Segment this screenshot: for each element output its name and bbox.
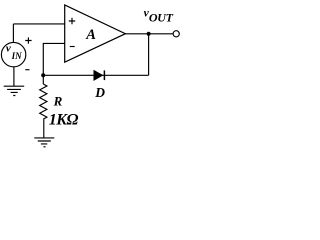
- svg-text:D: D: [94, 85, 105, 100]
- svg-text:IN: IN: [11, 51, 23, 61]
- svg-text:1KΩ: 1KΩ: [49, 112, 79, 129]
- svg-text:A: A: [85, 27, 96, 43]
- svg-text:v: v: [6, 42, 11, 54]
- svg-text:OUT: OUT: [149, 11, 174, 25]
- svg-text:R: R: [53, 94, 63, 109]
